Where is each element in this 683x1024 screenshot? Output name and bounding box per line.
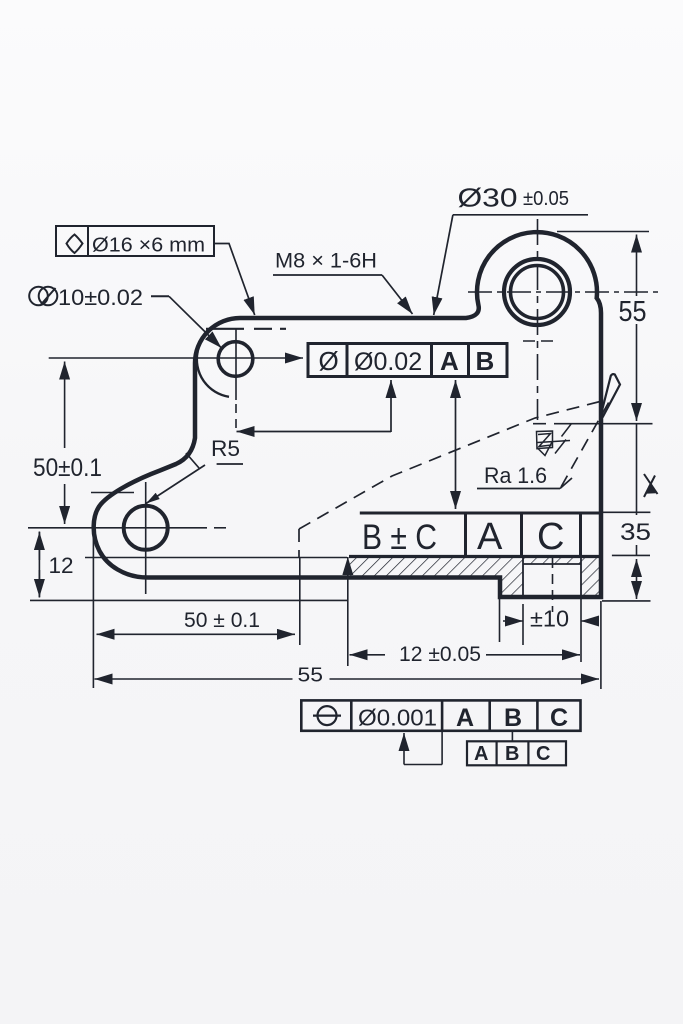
svg-text:B ± C: B ± C xyxy=(362,518,437,557)
svg-text:C: C xyxy=(537,516,564,558)
svg-text:B: B xyxy=(504,704,522,732)
svg-text:35: 35 xyxy=(620,519,651,546)
svg-text:R5: R5 xyxy=(211,436,240,461)
svg-text:A: A xyxy=(477,516,503,558)
svg-text:Ra 1.6: Ra 1.6 xyxy=(484,463,547,488)
svg-text:55: 55 xyxy=(298,664,324,687)
svg-text:12 ±0.05: 12 ±0.05 xyxy=(399,642,481,666)
svg-text:Ø16 ×6 mm: Ø16 ×6 mm xyxy=(92,234,205,257)
svg-text:M8 × 1-6H: M8 × 1-6H xyxy=(275,249,377,273)
svg-text:10±0.02: 10±0.02 xyxy=(58,285,143,310)
svg-text:±0.05: ±0.05 xyxy=(523,188,569,210)
svg-text:A: A xyxy=(456,704,474,732)
svg-text:Ø30: Ø30 xyxy=(458,183,518,213)
svg-text:C: C xyxy=(536,743,550,765)
svg-text:B: B xyxy=(505,743,519,765)
svg-text:C: C xyxy=(550,704,568,732)
svg-text:50 ± 0.1: 50 ± 0.1 xyxy=(184,609,260,632)
svg-text:50±0.1: 50±0.1 xyxy=(33,454,102,482)
svg-text:55: 55 xyxy=(619,296,647,328)
svg-text:Ø0.02: Ø0.02 xyxy=(354,348,422,376)
svg-text:Ø0.001: Ø0.001 xyxy=(358,705,437,731)
svg-text:A: A xyxy=(440,346,459,376)
svg-text:B: B xyxy=(476,346,495,376)
svg-text:12: 12 xyxy=(49,553,74,578)
svg-text:±10: ±10 xyxy=(530,606,569,632)
svg-text:A: A xyxy=(474,743,488,765)
svg-text:Ø: Ø xyxy=(319,346,339,376)
